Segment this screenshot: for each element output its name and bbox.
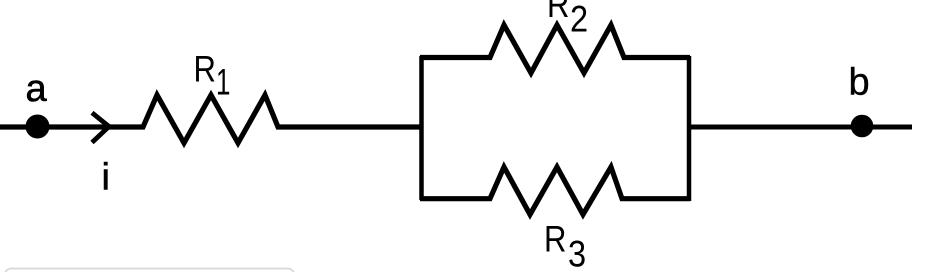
svg-text:i: i	[102, 157, 110, 199]
svg-text:a: a	[26, 68, 48, 110]
svg-text:1: 1	[216, 61, 230, 103]
svg-text:R: R	[194, 49, 216, 90]
svg-text:b: b	[849, 62, 870, 104]
svg-text:R: R	[544, 219, 566, 260]
svg-text:R: R	[547, 0, 569, 26]
svg-text:3: 3	[568, 234, 586, 272]
svg-text:2: 2	[570, 0, 588, 40]
